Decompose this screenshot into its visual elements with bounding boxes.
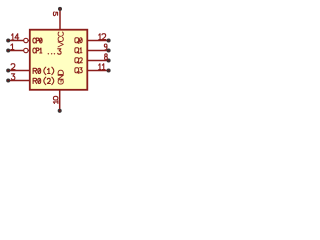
wire Q2 pin 8 right (87, 60, 108, 62)
pin name Q0 (75, 38, 79, 44)
junction dot CP1 (7, 49, 10, 52)
pin name GND (rotated) (58, 80, 63, 84)
ic U1 body (decade counter 7490) (30, 30, 88, 90)
wire VCC pin 5 top (59, 9, 61, 30)
junction dot Q3 (107, 69, 110, 72)
pin name CP1...3 part 3 (58, 49, 61, 54)
junction dot Q2 (107, 59, 110, 62)
pin number 8 (105, 54, 108, 60)
wire Q1 pin 9 right (87, 50, 108, 52)
pin name Q2 (75, 58, 79, 64)
pin name Q1 (75, 48, 79, 54)
wire CP0 pin 14 left (8, 40, 23, 42)
pin name CP1...3 dots (48, 53, 49, 54)
junction dot Q0 (107, 39, 110, 42)
pin name R0(1) (33, 68, 37, 73)
pin name CP0 (33, 38, 36, 43)
inversion bubble pin 1 (28, 50, 29, 52)
pin number 10 (rotated) (53, 101, 58, 104)
junction dot R0(1) (7, 69, 10, 72)
junction dot R0(2) (7, 79, 10, 82)
pin name VCC (rotated) (58, 42, 63, 47)
junction dot VCC (59, 7, 62, 10)
wire Q3 pin 11 right (87, 70, 108, 72)
pin number 3 (11, 74, 14, 80)
wire R0(1) pin 2 left (8, 70, 30, 72)
wire Q0 pin 12 right (87, 40, 108, 42)
pin number 11 (99, 64, 101, 70)
pin number 5 (rotated) (53, 12, 57, 16)
junction dot Q1 (107, 49, 110, 52)
pin name Q3 (75, 68, 79, 74)
pin number 2 (11, 64, 15, 70)
pin number 1 (11, 44, 14, 50)
pin name CP1...3 part CP1 (33, 48, 36, 53)
pin number 9 (104, 44, 107, 50)
pin name R0(2) (33, 78, 37, 83)
junction dot GND (58, 109, 61, 112)
wire GND pin 10 bottom (59, 90, 61, 111)
inversion bubble pin 14 (28, 40, 29, 42)
wire CP1 pin 1 left (8, 50, 23, 52)
pin number 14 (12, 34, 14, 40)
junction dot CP0 (7, 39, 10, 42)
pin number 12 (99, 34, 101, 40)
wire R0(2) pin 3 left (8, 80, 30, 82)
